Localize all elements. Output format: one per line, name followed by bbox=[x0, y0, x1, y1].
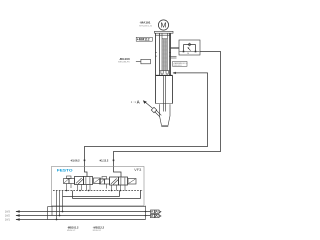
svg-text:VF3: VF3 bbox=[134, 168, 141, 172]
svg-text:M: M bbox=[187, 53, 189, 55]
rail junctions bbox=[66, 190, 68, 192]
manifold output line bbox=[48, 206, 146, 208]
tube line a bbox=[63, 196, 120, 198]
svg-text:1A/2: 1A/2 bbox=[5, 215, 10, 218]
spindle rod (hatched) bbox=[162, 39, 167, 71]
cylinder motor flange plate bbox=[155, 31, 174, 33]
wire B: sensor box to valve 2 bbox=[114, 52, 221, 178]
svg-text:SDE5-V1: SDE5-V1 bbox=[181, 63, 188, 65]
drop tube 5 bbox=[62, 191, 64, 212]
svg-text:-BG100: -BG100 bbox=[119, 57, 130, 61]
drop tube 2 bbox=[51, 206, 53, 216]
valve V2 main body bbox=[110, 177, 119, 185]
svg-text:A: A bbox=[137, 99, 140, 104]
suction tube bbox=[156, 110, 161, 115]
svg-text:1A/3: 1A/3 bbox=[5, 211, 10, 214]
svg-text:MTR-DNCI-32: MTR-DNCI-32 bbox=[139, 25, 153, 27]
valve V2 ports to rail bbox=[111, 185, 113, 191]
sensor BG100 symbol bbox=[136, 60, 141, 62]
valve V1 spring (right) bbox=[94, 178, 101, 184]
svg-text:1A/1: 1A/1 bbox=[5, 219, 10, 222]
view arrow A leader bbox=[145, 102, 153, 108]
drop tube 4 bbox=[59, 191, 61, 216]
valve V1 solenoid pilot (left) bbox=[64, 179, 70, 184]
svg-text:SIES-8M-PS: SIES-8M-PS bbox=[118, 62, 130, 64]
tube line b bbox=[72, 191, 74, 199]
sensor port double tick bbox=[171, 56, 177, 58]
wire A: cylinder to valve 1 bbox=[85, 73, 208, 177]
silencer row 1 bbox=[151, 210, 155, 213]
svg-text:MN1H-5/2: MN1H-5/2 bbox=[67, 230, 75, 232]
valve V1 main body bbox=[75, 177, 84, 185]
valve V1 ports to rail bbox=[77, 185, 79, 191]
exhaust drop at box corner bbox=[145, 206, 147, 220]
drop tube 1 bbox=[47, 207, 49, 220]
svg-text:-MA191: -MA191 bbox=[140, 21, 151, 25]
svg-text:+MM112: +MM112 bbox=[137, 38, 150, 42]
slide body (lower) bbox=[155, 75, 157, 103]
cylinder body (electric axis) bbox=[155, 33, 157, 75]
coupling section (spindle nut loops) bbox=[160, 70, 170, 72]
svg-text:FESTO: FESTO bbox=[57, 167, 73, 172]
valve V2 solenoid pilot (left) bbox=[100, 179, 105, 184]
svg-text:-MB101.2: -MB101.2 bbox=[67, 225, 79, 229]
label box +MM105 bbox=[173, 62, 188, 67]
valve V2 spring (right) bbox=[128, 179, 136, 185]
housing joint ticks bbox=[155, 51, 157, 53]
bus line 2 bbox=[16, 215, 151, 217]
gripper funnel bbox=[160, 104, 171, 125]
svg-text:1 : 1: 1 : 1 bbox=[131, 100, 137, 104]
valve terminal box VF3 bbox=[52, 167, 145, 206]
bus line 3 bbox=[16, 219, 146, 221]
svg-text:-MB112.2: -MB112.2 bbox=[93, 225, 105, 229]
motor U1 (M) bbox=[158, 20, 168, 30]
sensor box U2 bbox=[179, 40, 200, 55]
svg-text:-KL06.2: -KL06.2 bbox=[70, 158, 80, 162]
svg-text:M: M bbox=[161, 21, 167, 30]
svg-text:WIRE-M8X4: WIRE-M8X4 bbox=[173, 65, 182, 67]
drop tube 3 bbox=[56, 191, 58, 220]
bus line 1 bbox=[16, 211, 151, 213]
label +MM112 bbox=[136, 37, 152, 41]
silencer row 2 bbox=[151, 214, 155, 217]
sensor box U2 connection lines bbox=[171, 47, 180, 49]
manifold rail (dashed) bbox=[53, 190, 143, 192]
svg-text:-KL13.2: -KL13.2 bbox=[99, 158, 109, 162]
svg-text:MN1H-5/2: MN1H-5/2 bbox=[93, 230, 101, 232]
suction tube fitting (diamond) bbox=[151, 107, 157, 113]
